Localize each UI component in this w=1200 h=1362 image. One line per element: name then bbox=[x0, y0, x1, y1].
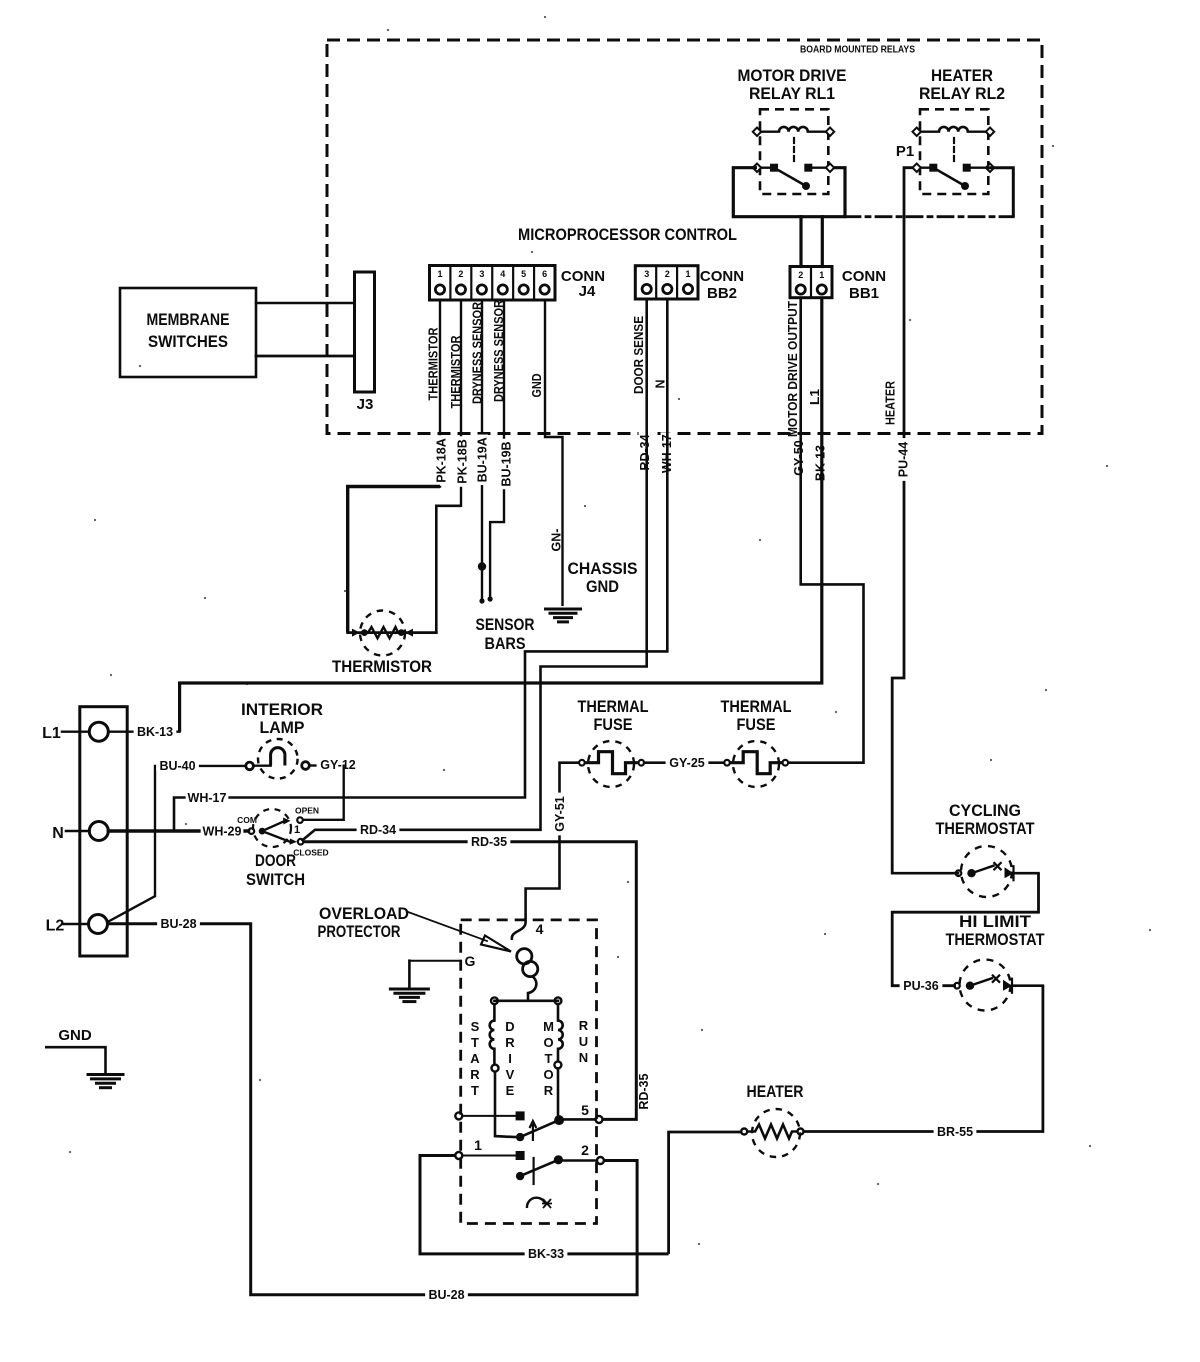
svg-text:T: T bbox=[545, 1051, 553, 1066]
connector J3 bbox=[355, 272, 375, 392]
wire cycling to hi-limit bbox=[892, 873, 1038, 986]
svg-text:PK-18A: PK-18A bbox=[434, 438, 448, 482]
svg-text:THERMAL: THERMAL bbox=[578, 697, 649, 716]
svg-text:N: N bbox=[653, 379, 667, 388]
svg-text:BU-40: BU-40 bbox=[159, 759, 195, 773]
svg-text:RELAY RL2: RELAY RL2 bbox=[919, 84, 1005, 103]
svg-text:R: R bbox=[505, 1035, 515, 1050]
svg-text:P1: P1 bbox=[896, 143, 914, 160]
svg-text:RD-34: RD-34 bbox=[638, 434, 652, 470]
motor winding bus bbox=[494, 999, 558, 1002]
svg-text:HEATER: HEATER bbox=[883, 381, 897, 425]
terminal block bbox=[80, 707, 127, 956]
svg-text:BU-19B: BU-19B bbox=[499, 441, 513, 486]
svg-text:OVERLOAD: OVERLOAD bbox=[319, 904, 409, 923]
svg-text:WH-29: WH-29 bbox=[203, 824, 242, 838]
svg-text:PROTECTOR: PROTECTOR bbox=[318, 922, 401, 941]
svg-text:GY-12: GY-12 bbox=[320, 758, 355, 772]
svg-text:BB1: BB1 bbox=[849, 285, 879, 302]
overload protector leader arrow bbox=[408, 912, 487, 941]
svg-text:THERMOSTAT: THERMOSTAT bbox=[946, 930, 1046, 949]
svg-text:N: N bbox=[52, 825, 64, 842]
svg-text:R: R bbox=[579, 1018, 589, 1033]
wire J4 pin4 BU-19B bbox=[490, 300, 504, 599]
svg-text:SENSOR: SENSOR bbox=[476, 615, 535, 634]
svg-text:PU-44: PU-44 bbox=[896, 442, 910, 477]
svg-text:O: O bbox=[543, 1067, 553, 1082]
terminal L1 bbox=[89, 722, 108, 741]
svg-text:1: 1 bbox=[685, 269, 690, 279]
wire label WH-17 lower bbox=[186, 791, 229, 803]
wire GY-51 fuse to motor terminal 4 bbox=[526, 763, 580, 922]
svg-text:G: G bbox=[465, 953, 476, 969]
thermistor component bbox=[360, 611, 405, 656]
wire membrane to J3 upper bbox=[256, 302, 354, 304]
wire RD-34 from BB2 pin3 to door switch bbox=[302, 299, 647, 841]
wire J4 pin2 PK-18B bbox=[460, 300, 462, 506]
relay RL1 coil bbox=[757, 130, 779, 132]
svg-text:RD-35: RD-35 bbox=[637, 1073, 651, 1109]
wire label PU-36 bbox=[900, 979, 943, 991]
wire label PU-44 bbox=[897, 438, 909, 481]
wire label GY-50 bbox=[793, 437, 805, 480]
svg-text:GY-50: GY-50 bbox=[792, 440, 806, 475]
svg-text:E: E bbox=[506, 1083, 515, 1098]
board mounted relays dashed enclosure bbox=[327, 40, 1042, 434]
wire label GY-12 bbox=[309, 764, 318, 766]
wire RL1 to BB1 pin 1 bbox=[821, 217, 824, 267]
svg-text:6: 6 bbox=[542, 269, 547, 279]
G ground symbol bbox=[408, 961, 411, 989]
relay RL2 armature dashed link bbox=[953, 138, 955, 163]
svg-text:GND: GND bbox=[58, 1027, 92, 1044]
svg-text:BOARD MOUNTED RELAYS: BOARD MOUNTED RELAYS bbox=[800, 44, 915, 56]
svg-text:I: I bbox=[508, 1051, 512, 1066]
svg-text:3: 3 bbox=[479, 269, 484, 279]
relay RL1 armature dashed link bbox=[793, 138, 795, 163]
svg-text:INTERIOR: INTERIOR bbox=[241, 700, 323, 719]
svg-text:N: N bbox=[579, 1050, 588, 1065]
svg-text:RD-34: RD-34 bbox=[360, 823, 396, 837]
wire hi-limit to heater BR-55 bbox=[804, 986, 1043, 1132]
connector BB2 bbox=[635, 266, 698, 299]
svg-text:MOTOR DRIVE OUTPUT: MOTOR DRIVE OUTPUT bbox=[786, 301, 800, 437]
svg-text:COM: COM bbox=[237, 815, 257, 825]
wire J4 pin3 BU-19A bbox=[481, 300, 483, 601]
svg-text:R: R bbox=[470, 1067, 480, 1082]
svg-text:GY-25: GY-25 bbox=[669, 756, 704, 770]
wire label BU-19A bbox=[476, 435, 488, 486]
centrifugal actuator hook bbox=[527, 1198, 545, 1208]
svg-text:R: R bbox=[544, 1083, 554, 1098]
interior lamp bbox=[258, 739, 298, 779]
svg-text:DOOR: DOOR bbox=[255, 851, 296, 870]
G ground wire bbox=[409, 960, 461, 962]
svg-text:THERMAL: THERMAL bbox=[721, 697, 792, 716]
svg-text:BK-33: BK-33 bbox=[528, 1247, 564, 1261]
wire label BK-13 top bbox=[814, 442, 826, 485]
svg-text:4: 4 bbox=[500, 269, 505, 279]
wire J4 pin6 GND to chassis bbox=[545, 300, 563, 606]
wire label BU-28 at L2 bbox=[157, 917, 200, 929]
wire motor terminal 1 to BK-33 bbox=[420, 1156, 669, 1254]
wire RL2 right side down bbox=[986, 168, 1013, 217]
overload protector device bbox=[512, 922, 526, 940]
svg-text:S: S bbox=[471, 1019, 480, 1034]
svg-text:L1: L1 bbox=[808, 389, 822, 405]
svg-text:FUSE: FUSE bbox=[737, 715, 776, 734]
svg-text:T: T bbox=[471, 1083, 479, 1098]
svg-text:HEATER: HEATER bbox=[931, 66, 993, 85]
wire RL1 to BB1 pin 2 bbox=[799, 217, 802, 267]
start switch bbox=[455, 1112, 462, 1119]
svg-text:L2: L2 bbox=[46, 918, 65, 935]
relay RL2 coil bbox=[917, 130, 939, 132]
svg-text:J4: J4 bbox=[579, 283, 596, 300]
svg-text:BK-13: BK-13 bbox=[137, 725, 173, 739]
wire label PK-18A bbox=[435, 435, 447, 486]
svg-text:2: 2 bbox=[458, 269, 463, 279]
svg-text:BB2: BB2 bbox=[707, 285, 737, 302]
svg-text:PU-36: PU-36 bbox=[903, 979, 938, 993]
run switch bbox=[455, 1152, 462, 1159]
relay RL1 dashed body bbox=[760, 109, 828, 194]
svg-text:DOOR SENSE: DOOR SENSE bbox=[632, 316, 646, 394]
wire label GY-51 bbox=[554, 793, 566, 836]
relay RL2 switch bbox=[913, 164, 921, 172]
svg-text:2: 2 bbox=[581, 1142, 589, 1158]
motor dashed enclosure bbox=[461, 920, 597, 1224]
svg-text:OPEN: OPEN bbox=[295, 806, 319, 816]
wire label PK-18B bbox=[456, 436, 468, 487]
svg-text:RELAY RL1: RELAY RL1 bbox=[749, 84, 835, 103]
wire label BU-19B bbox=[500, 439, 512, 490]
svg-text:GN-: GN- bbox=[549, 529, 563, 552]
wire BK-33 riser to heater bbox=[669, 1132, 742, 1254]
svg-text:RD-35: RD-35 bbox=[471, 835, 507, 849]
svg-text:MEMBRANE: MEMBRANE bbox=[147, 310, 230, 329]
svg-text:D: D bbox=[505, 1019, 514, 1034]
svg-text:2: 2 bbox=[665, 269, 670, 279]
wire BU-40 L2 to interior lamp bbox=[108, 766, 247, 922]
svg-text:BARS: BARS bbox=[485, 634, 526, 653]
wire label BK-33 bbox=[525, 1247, 568, 1259]
svg-text:BU-28: BU-28 bbox=[160, 917, 196, 931]
wire WH-17 from BB2 pin2 to N junction bbox=[174, 299, 667, 831]
connector J4 bbox=[430, 266, 556, 301]
cycling thermostat bbox=[961, 846, 1012, 897]
wire RD-35 door switch to motor terminal 5 bbox=[303, 842, 636, 1120]
svg-text:1: 1 bbox=[819, 270, 824, 280]
svg-text:A: A bbox=[470, 1051, 480, 1066]
thermistor wiring right branch bbox=[436, 506, 461, 633]
wire label BR-55 bbox=[934, 1125, 977, 1137]
svg-text:BU-19A: BU-19A bbox=[475, 437, 489, 482]
svg-text:MICROPROCESSOR CONTROL: MICROPROCESSOR CONTROL bbox=[518, 225, 737, 244]
svg-text:J3: J3 bbox=[357, 396, 374, 413]
wire RL2 left plate down (PU-44 feed) bbox=[892, 168, 912, 874]
svg-text:O: O bbox=[543, 1035, 553, 1050]
membrane switches block bbox=[120, 288, 256, 377]
wire label BU-40 bbox=[156, 759, 199, 771]
svg-text:U: U bbox=[579, 1034, 588, 1049]
svg-text:CONN: CONN bbox=[842, 268, 886, 285]
connector BB1 bbox=[790, 267, 832, 298]
svg-text:THERMOSTAT: THERMOSTAT bbox=[936, 819, 1036, 838]
svg-text:THERMISTOR: THERMISTOR bbox=[332, 657, 432, 676]
wire WH-29 N to door switch COM bbox=[108, 829, 248, 832]
wire BU-28 L2 run bbox=[108, 924, 638, 1295]
svg-text:CONN: CONN bbox=[700, 268, 744, 285]
terminal N bbox=[89, 822, 108, 841]
svg-text:BU-28: BU-28 bbox=[428, 1288, 464, 1302]
svg-text:V: V bbox=[506, 1067, 515, 1082]
wire J4 pin1 PK-18A bbox=[439, 300, 441, 487]
dash-dot link RL1 to RL2 bbox=[845, 215, 1013, 218]
svg-text:GND: GND bbox=[530, 374, 544, 398]
svg-text:SWITCH: SWITCH bbox=[246, 870, 305, 889]
svg-text:HEATER: HEATER bbox=[747, 1082, 804, 1101]
thermal fuse 1 bbox=[588, 741, 634, 787]
wire label BK-13 at L1 bbox=[134, 725, 177, 737]
wire GY-50 from BB1 pin2 to thermal fuse bbox=[788, 298, 864, 763]
svg-text:L1: L1 bbox=[42, 725, 61, 742]
wire label GY-25 bbox=[666, 756, 709, 768]
svg-text:GND: GND bbox=[586, 577, 619, 596]
svg-text:CLOSED: CLOSED bbox=[293, 848, 328, 858]
wire GY-12 lamp to door switch open contact bbox=[303, 765, 344, 820]
svg-text:2: 2 bbox=[798, 270, 803, 280]
svg-text:CYCLING: CYCLING bbox=[949, 801, 1021, 820]
svg-text:5: 5 bbox=[581, 1102, 589, 1118]
svg-text:WH-17: WH-17 bbox=[188, 791, 227, 805]
start winding (drive) bbox=[493, 1004, 496, 1020]
heater element bbox=[752, 1109, 800, 1157]
relay RL2 dashed body bbox=[920, 109, 988, 194]
sensor bar A bbox=[478, 562, 486, 570]
wire BK-13 from BB1 pin1 to L1 bbox=[180, 298, 822, 732]
wire label RD-34 top bbox=[639, 431, 651, 474]
svg-text:5: 5 bbox=[521, 269, 526, 279]
svg-text:1: 1 bbox=[437, 269, 442, 279]
terminal L2 bbox=[89, 915, 108, 934]
sensor bar B bbox=[488, 596, 493, 601]
svg-text:SWITCHES: SWITCHES bbox=[148, 332, 228, 351]
svg-text:T: T bbox=[471, 1035, 479, 1050]
wire label WH-17 top bbox=[661, 432, 673, 475]
svg-text:HI LIMIT: HI LIMIT bbox=[959, 912, 1032, 931]
svg-text:M: M bbox=[543, 1019, 554, 1034]
svg-text:BR-55: BR-55 bbox=[937, 1125, 973, 1139]
svg-text:PK-18B: PK-18B bbox=[455, 439, 469, 483]
wire membrane to J3 lower bbox=[256, 355, 354, 358]
svg-text:LAMP: LAMP bbox=[260, 718, 305, 737]
wire RL1 switch loop bbox=[733, 168, 845, 217]
start winding lead to switch pivot bbox=[495, 1072, 516, 1138]
wire label WH-29 bbox=[201, 824, 244, 836]
wire label BU-28 bottom bbox=[425, 1288, 468, 1300]
relay RL1 switch bbox=[753, 164, 761, 172]
svg-text:1: 1 bbox=[294, 824, 300, 836]
main winding (motor run) bbox=[557, 1004, 560, 1020]
svg-text:GY-51: GY-51 bbox=[553, 796, 567, 831]
svg-text:CHASSIS: CHASSIS bbox=[568, 559, 638, 578]
thermistor wiring left branch bbox=[348, 487, 440, 633]
thermal fuse 2 bbox=[733, 741, 779, 787]
wire label RD-34 at door switch bbox=[357, 823, 400, 835]
svg-text:1: 1 bbox=[474, 1137, 482, 1153]
svg-text:FUSE: FUSE bbox=[594, 715, 633, 734]
svg-text:4: 4 bbox=[536, 921, 544, 937]
svg-text:MOTOR DRIVE: MOTOR DRIVE bbox=[738, 66, 847, 85]
svg-text:3: 3 bbox=[644, 269, 649, 279]
wire label RD-35 at door switch bbox=[468, 835, 511, 847]
svg-text:THERMISTOR: THERMISTOR bbox=[426, 328, 440, 401]
wire fuse1 to fuse2 bbox=[644, 761, 724, 764]
hi limit thermostat bbox=[960, 960, 1011, 1011]
door switch bbox=[253, 809, 291, 847]
